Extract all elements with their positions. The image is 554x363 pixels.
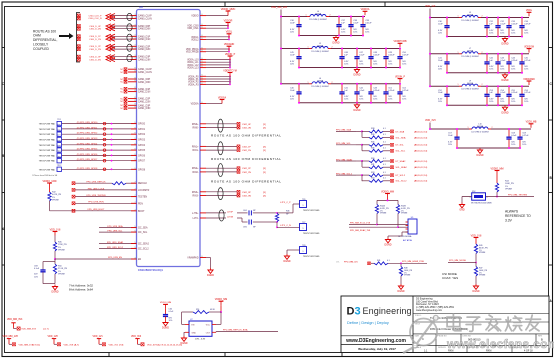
resistor R44 bbox=[495, 175, 514, 193]
resistor R45 bbox=[53, 236, 67, 252]
wire U7 VCC bbox=[216, 323, 221, 325]
differential pair CSI2_1P/CSI2_1N from U8 bbox=[192, 142, 266, 155]
svg-text:6: 6 bbox=[202, 80, 203, 82]
svg-text:7: 7 bbox=[135, 209, 136, 211]
svg-text:U8: U8 bbox=[139, 5, 143, 9]
svg-text:DT_SCL: DT_SCL bbox=[396, 145, 405, 147]
svg-text:3: 3 bbox=[135, 17, 136, 19]
svg-text:CAM0_D2N: CAM0_D2N bbox=[138, 48, 151, 51]
title block grid bbox=[341, 296, 549, 353]
svg-text:GPIO0: GPIO0 bbox=[138, 124, 146, 126]
svg-text:(X) FPD_URS_GPIO4: (X) FPD_URS_GPIO4 bbox=[77, 143, 98, 145]
svg-text:3: 3 bbox=[135, 27, 136, 29]
svg-text:CAM0_D1N: CAM0_D1N bbox=[138, 38, 151, 41]
svg-text:[7,9]: [7,9] bbox=[119, 344, 124, 346]
capacitor C42 1uF bbox=[484, 53, 494, 74]
capacitor C45 10uF bbox=[290, 48, 302, 69]
svg-text:4: 4 bbox=[135, 257, 136, 259]
column A feed wire VDD_MM_1V8 bbox=[271, 6, 288, 84]
svg-text:[A,7,9,11,12,13,14,15,16]: [A,7,9,11,12,13,14,15,16] bbox=[158, 343, 183, 346]
U8 power pins VDDA_LJ0 group wire bbox=[187, 58, 231, 70]
note ROUTE AS 100 OHM DIFFERENTIAL LOOSELY COUPLED with bracket bbox=[33, 13, 80, 63]
svg-text:VDDA_LJ2: VDDA_LJ2 bbox=[187, 64, 199, 67]
svg-text:10%: 10% bbox=[359, 63, 363, 65]
svg-text:10%: 10% bbox=[524, 32, 528, 34]
svg-text:10%: 10% bbox=[290, 63, 294, 65]
ground DGND left-bottom bbox=[51, 285, 58, 294]
column B2 feed label VDD_3V3 bbox=[425, 119, 436, 129]
differential pair LJT0 from U8 bbox=[192, 210, 234, 221]
differential pair CSI0 row 4 (CSI0_D_2P/CSI0_D_2N) into U8 bbox=[77, 44, 150, 51]
svg-text:CAM1_D1N: CAM1_D1N bbox=[138, 91, 151, 94]
svg-text:120 OHM @ 100MHZ: 120 OHM @ 100MHZ bbox=[311, 86, 329, 88]
svg-text:2: 2 bbox=[330, 15, 331, 17]
svg-text:www.D3Engineering.com: www.D3Engineering.com bbox=[345, 338, 406, 344]
svg-text:10%: 10% bbox=[511, 32, 515, 34]
control row FPD_URS_PDN to U8 pin PDN bbox=[72, 202, 143, 206]
svg-text:0.1uF: 0.1uF bbox=[500, 92, 506, 94]
B4 power rail bbox=[429, 128, 531, 130]
svg-text:10%: 10% bbox=[438, 69, 442, 71]
svg-text:VDD_1V8: VDD_1V8 bbox=[64, 344, 75, 346]
svg-text:[X]: [X] bbox=[263, 172, 266, 174]
svg-text:9: 9 bbox=[135, 154, 136, 156]
svg-text:0.01uF: 0.01uF bbox=[365, 23, 372, 25]
svg-text:6: 6 bbox=[202, 75, 203, 77]
svg-text:BOOT: BOOT bbox=[138, 211, 145, 213]
svg-text:RIN0-: RIN0- bbox=[193, 128, 199, 130]
svg-text:REFERENCE TO: REFERENCE TO bbox=[505, 214, 531, 218]
svg-text:10%: 10% bbox=[169, 320, 173, 322]
svg-text:3: 3 bbox=[135, 14, 136, 16]
svg-text:CAM0_D3P: CAM0_D3P bbox=[138, 56, 151, 59]
svg-text:0.1: 0.1 bbox=[383, 148, 386, 150]
inductor L4 ferrite bead bbox=[306, 11, 331, 21]
svg-text:PDN: PDN bbox=[138, 203, 143, 205]
svg-text:7: 7 bbox=[135, 202, 136, 204]
svg-text:[X]: [X] bbox=[263, 192, 266, 194]
svg-text:VP08M: VP08M bbox=[380, 213, 387, 215]
svg-text:8: 8 bbox=[135, 70, 136, 72]
svg-text:TEST-POINT PAD: TEST-POINT PAD bbox=[39, 128, 56, 131]
svg-text:FPD_MM_I2S: FPD_MM_I2S bbox=[344, 261, 358, 263]
capacitor CH2 series bbox=[237, 218, 262, 229]
svg-text:6: 6 bbox=[202, 35, 203, 37]
I2C translate row R35 to DT_SCL bbox=[336, 142, 428, 151]
capacitor C43 0.1uF bbox=[495, 53, 506, 74]
svg-text:10%: 10% bbox=[489, 32, 493, 34]
power flag VDDOR bbox=[224, 19, 233, 26]
svg-text:5: 5 bbox=[135, 226, 136, 228]
B4 bottom rail bbox=[457, 147, 520, 149]
svg-text:I2C_SCL: I2C_SCL bbox=[138, 232, 148, 234]
svg-text:(X) FPD_URS_GPIO1: (X) FPD_URS_GPIO1 bbox=[77, 127, 98, 129]
power flag VDD_MM_1V8 tap bbox=[3, 336, 41, 346]
power flag VDDL bbox=[526, 10, 533, 16]
svg-text:Engineering: Engineering bbox=[363, 306, 412, 316]
svg-text:VDD_PRQB: VDD_PRQB bbox=[186, 52, 199, 54]
svg-text:3.3V: 3.3V bbox=[505, 219, 513, 223]
svg-text:VDDIO: VDDIO bbox=[191, 16, 198, 18]
column B feed wire VDD_1V1 bbox=[425, 5, 436, 86]
svg-text:8-bit Address: 0x64: 8-bit Address: 0x64 bbox=[69, 288, 93, 292]
svg-text:6: 6 bbox=[202, 50, 203, 52]
svg-text:CSI0_D_2N: CSI0_D_2N bbox=[89, 49, 101, 51]
A3 bottom rail bbox=[299, 102, 400, 104]
svg-text:9: 9 bbox=[135, 149, 136, 151]
svg-text:1%: 1% bbox=[505, 186, 508, 188]
svg-text:2: 2 bbox=[492, 127, 493, 129]
capacitor C31 1uF bbox=[484, 17, 494, 38]
svg-text:0.1uF: 0.1uF bbox=[511, 135, 517, 137]
svg-text:DGND: DGND bbox=[283, 260, 290, 263]
svg-text:FPD_URS_EN: FPD_URS_EN bbox=[108, 257, 122, 259]
svg-text:6: 6 bbox=[202, 66, 203, 68]
I2C translate row R30 to DT_SDA2 bbox=[336, 158, 428, 167]
svg-text:10%: 10% bbox=[438, 32, 442, 34]
svg-text:5: 5 bbox=[135, 242, 136, 244]
svg-text:2: 2 bbox=[482, 84, 483, 86]
svg-text:CSI0_D_3P: CSI0_D_3P bbox=[89, 57, 101, 59]
svg-text:www.d3engineering.com: www.d3engineering.com bbox=[416, 309, 442, 312]
differential pair CSI0 row 2 (CSI0_D_0P/CSI0_D_0N) into U8 bbox=[77, 24, 150, 31]
svg-text:3: 3 bbox=[135, 38, 136, 40]
power flag VDD_1V8 left-bottom bbox=[50, 228, 61, 235]
svg-text:0.25uF: 0.25uF bbox=[373, 55, 380, 57]
svg-text:CAM1_D2N: CAM1_D2N bbox=[138, 100, 151, 103]
note ROUTE AS 100 OHM DIFFERENTIAL 1 bbox=[211, 134, 282, 138]
capacitor C39 0.01uF bbox=[360, 16, 372, 37]
differential pair CSI0 row 5 (CSI0_D_3P/CSI0_D_3N) into U8 bbox=[77, 55, 150, 62]
svg-text:(X) FPD_URS_GPIO6: (X) FPD_URS_GPIO6 bbox=[77, 154, 98, 156]
ground GND testen bbox=[459, 203, 465, 212]
svg-text:EN: EN bbox=[138, 259, 142, 261]
svg-text:VDDIO_MM: VDDIO_MM bbox=[160, 302, 171, 304]
power flag VDDIO_MM decouple bbox=[160, 302, 171, 308]
svg-text:DGND: DGND bbox=[476, 154, 483, 157]
ground DGND B4 bbox=[476, 148, 483, 157]
svg-text:(X) FPD_URS_GPIO3: (X) FPD_URS_GPIO3 bbox=[77, 138, 98, 140]
I2C translate row R38 to DT_SDA bbox=[336, 128, 428, 137]
svg-text:VDDIO_MMC: VDDIO_MMC bbox=[221, 8, 236, 11]
svg-text:GPIO3: GPIO3 bbox=[138, 140, 146, 142]
capacitor C46 1uF bbox=[339, 48, 349, 69]
svg-text:VRAMPAD: VRAMPAD bbox=[187, 257, 199, 260]
svg-text:0.1: 0.1 bbox=[383, 128, 386, 130]
svg-text:TP4: TP4 bbox=[57, 119, 60, 121]
svg-text:VP08M: VP08M bbox=[479, 252, 486, 254]
wire to gnd testen bbox=[461, 197, 463, 203]
capacitor C53 1uF bbox=[484, 85, 494, 106]
power flag VDDAMD bbox=[224, 43, 235, 50]
svg-text:3: 3 bbox=[135, 45, 136, 47]
svg-text:VDDRTCYM: VDDRTCYM bbox=[223, 69, 237, 72]
svg-text:120 OHM @ 100MHZ: 120 OHM @ 100MHZ bbox=[461, 56, 479, 58]
capacitor C33 0.25uF bbox=[506, 17, 518, 38]
capacitor C48 0.25uF bbox=[368, 48, 380, 69]
svg-text:FPD_URS_SDA: FPD_URS_SDA bbox=[107, 225, 123, 228]
svg-text:I2C_SCL2: I2C_SCL2 bbox=[138, 248, 149, 250]
power flag VDDIN_P bbox=[395, 76, 405, 82]
svg-text:10%: 10% bbox=[365, 31, 369, 33]
svg-text:COUPLED: COUPLED bbox=[33, 47, 50, 51]
svg-text:GPIO8: GPIO8 bbox=[138, 169, 146, 171]
B3 power rail bbox=[429, 85, 529, 87]
capacitor C38 0.1uF bbox=[348, 16, 359, 37]
svg-text:0.27uF: 0.27uF bbox=[402, 90, 409, 92]
svg-text:VDD_CSI0: VDD_CSI0 bbox=[187, 26, 199, 28]
svg-text:560MA: 560MA bbox=[467, 13, 474, 16]
svg-text:[7,9,11]: [7,9,11] bbox=[33, 344, 41, 346]
svg-text:10%: 10% bbox=[524, 101, 528, 103]
svg-text:DGND: DGND bbox=[472, 290, 479, 293]
svg-text:10uF: 10uF bbox=[290, 90, 295, 92]
I2C translate row R31 to SCL_SDA2 bbox=[362, 164, 428, 169]
svg-text:CTL: CTL bbox=[336, 261, 340, 263]
wire U7 GND bbox=[184, 332, 185, 336]
capacitor CH1 series bbox=[237, 210, 262, 215]
svg-text:VDDA_P1: VDDA_P1 bbox=[188, 78, 199, 81]
svg-text:120 OHM @ 100MHZ: 120 OHM @ 100MHZ bbox=[461, 89, 479, 91]
capacitor C32 0.1uF bbox=[495, 17, 506, 38]
test point TP6 wire to U8 pin GPIO2 bbox=[39, 130, 146, 137]
resistor R49 upper bbox=[474, 242, 488, 255]
svg-text:VDDIN_P: VDDIN_P bbox=[225, 53, 236, 56]
svg-text:10%: 10% bbox=[522, 144, 526, 146]
svg-text:NP-TBD/3K3/1206 50MW: NP-TBD/3K3/1206 50MW bbox=[471, 203, 492, 205]
ground DGND below VRAMPAD bbox=[207, 268, 214, 277]
svg-text:FPD_MM_TESTEN: FPD_MM_TESTEN bbox=[508, 194, 528, 196]
no-connect pair CAM1 row 5 (CAM1_D3P/CAM1_D3N) bbox=[120, 104, 150, 110]
power flag VDDIOA bbox=[361, 8, 370, 15]
svg-text:9: 9 bbox=[135, 122, 136, 124]
svg-text:LJT0+: LJT0+ bbox=[192, 213, 199, 215]
svg-text:10uF: 10uF bbox=[438, 24, 443, 26]
svg-text:R39: R39 bbox=[371, 134, 374, 136]
I2C translate row R34 to SCL_SCL2 bbox=[362, 178, 428, 183]
svg-text:VDDAMD: VDDAMD bbox=[224, 43, 235, 46]
inductor L7 ferrite bead bbox=[458, 48, 483, 58]
differential pair CSI2_2P/CSI2_2N from U8 bbox=[192, 164, 266, 177]
capacitor C40 10uF bbox=[290, 83, 302, 104]
capacitor C30 10uF bbox=[438, 17, 450, 38]
svg-text:10%: 10% bbox=[344, 99, 348, 101]
svg-text:VP08M: VP08M bbox=[479, 275, 486, 277]
svg-text:10uF: 10uF bbox=[438, 92, 443, 94]
svg-text:(X) FPD_URS_GPIO7: (X) FPD_URS_GPIO7 bbox=[77, 159, 98, 161]
svg-text:TP9: TP9 bbox=[57, 146, 60, 148]
svg-text:(A8,10,12,14): (A8,10,12,14) bbox=[414, 160, 428, 163]
svg-text:SCL_SCL: SCL_SCL bbox=[396, 151, 407, 153]
svg-text:0.1uF: 0.1uF bbox=[500, 24, 506, 26]
svg-text:GND: GND bbox=[192, 332, 197, 334]
svg-text:R41: R41 bbox=[377, 260, 380, 262]
svg-text:1.8V - 3.3V: 1.8V - 3.3V bbox=[195, 339, 206, 341]
svg-text:10%: 10% bbox=[500, 32, 504, 34]
svg-text:120 OHM @ 100MHZ: 120 OHM @ 100MHZ bbox=[309, 19, 327, 21]
U8 power pins VDDIO group wire bbox=[191, 14, 228, 18]
svg-text:TP12: TP12 bbox=[57, 165, 62, 167]
power flag VDDIN_P bbox=[225, 53, 236, 60]
svg-text:560MA: 560MA bbox=[467, 82, 474, 85]
svg-text:FPD_URS_SDA2: FPD_URS_SDA2 bbox=[107, 241, 124, 244]
A1 bottom rail bbox=[299, 35, 363, 37]
svg-text:TP8: TP8 bbox=[302, 245, 305, 247]
svg-text:49.9K: 49.9K bbox=[210, 309, 216, 311]
U8 power pins VDDSA group wire bbox=[191, 102, 222, 106]
ground DGND A3 bbox=[353, 103, 360, 112]
power flag VDD3OM bbox=[524, 46, 534, 52]
svg-text:GPIO2: GPIO2 bbox=[138, 134, 146, 136]
svg-text:6: 6 bbox=[202, 83, 203, 85]
svg-text:1: 1 bbox=[308, 47, 309, 49]
svg-text:VDDSA: VDDSA bbox=[191, 103, 199, 106]
svg-text:560MA: 560MA bbox=[317, 80, 324, 83]
svg-text:CAM0_D1P: CAM0_D1P bbox=[138, 35, 151, 38]
svg-text:560MA: 560MA bbox=[477, 125, 484, 128]
capacitor C42 0.1uF bbox=[354, 83, 365, 104]
resistor R42 pullup bbox=[48, 187, 75, 211]
svg-text:DGND: DGND bbox=[332, 42, 339, 45]
ground DGND B3 bbox=[501, 105, 508, 114]
svg-text:VDDL2: VDDL2 bbox=[191, 40, 199, 42]
capacitor C41 1uF bbox=[339, 83, 349, 104]
svg-text:VDDSA: VDDSA bbox=[218, 96, 227, 99]
svg-text:3: 3 bbox=[135, 48, 136, 50]
svg-text:VDD_CSI1: VDD_CSI1 bbox=[187, 28, 199, 30]
svg-text:RIN3-: RIN3- bbox=[193, 196, 199, 198]
svg-text:VDD3_MB: VDD3_MB bbox=[526, 122, 537, 124]
svg-text:R33: R33 bbox=[371, 172, 374, 174]
A1 power rail bbox=[280, 16, 365, 18]
svg-text:DIFFERENTIAL,: DIFFERENTIAL, bbox=[33, 38, 57, 42]
svg-text:8: 8 bbox=[135, 90, 136, 92]
svg-text:VDDL: VDDL bbox=[226, 31, 233, 34]
svg-text:R30: R30 bbox=[371, 158, 374, 160]
svg-text:0.1uF: 0.1uF bbox=[359, 55, 365, 57]
svg-text:TP7: TP7 bbox=[302, 222, 305, 224]
svg-text:10%: 10% bbox=[388, 63, 392, 65]
A2 bottom rail bbox=[299, 67, 400, 69]
svg-text:10%: 10% bbox=[489, 101, 493, 103]
capacitor C83 bbox=[34, 259, 55, 284]
svg-text:2: 2 bbox=[332, 47, 333, 49]
svg-text:CAM0_D0P: CAM0_D0P bbox=[138, 25, 151, 28]
svg-text:9: 9 bbox=[135, 133, 136, 135]
svg-text:0.27uF: 0.27uF bbox=[402, 55, 409, 57]
B1 power rail bbox=[429, 17, 529, 19]
title www.D3Engineering.com bbox=[345, 338, 406, 344]
power flag VDDIO_URD bbox=[42, 180, 56, 187]
svg-text:ALT ATSH: ALT ATSH bbox=[403, 239, 413, 242]
svg-text:DGND: DGND bbox=[353, 109, 360, 112]
svg-text:Define | Design | Deploy: Define | Design | Deploy bbox=[347, 320, 389, 325]
svg-text:VDD3OM: VDD3OM bbox=[524, 46, 534, 48]
svg-text:10uF: 10uF bbox=[290, 23, 295, 25]
control row FPD_URS_LOCK to U8 pin LOCKMTR bbox=[72, 188, 150, 192]
svg-text:GPIO1: GPIO1 bbox=[138, 129, 146, 131]
svg-text:8: 8 bbox=[135, 68, 136, 70]
svg-text:CAM1_D1P: CAM1_D1P bbox=[138, 88, 151, 91]
note EVB items text bbox=[32, 174, 58, 177]
ground DGND B1 bbox=[501, 37, 508, 46]
svg-text:TEST-POINT PAD: TEST-POINT PAD bbox=[39, 144, 56, 147]
U8 power pins VDD_PRQA group wire bbox=[186, 47, 230, 53]
svg-text:10%: 10% bbox=[489, 69, 493, 71]
svg-text:8: 8 bbox=[135, 107, 136, 109]
svg-text:[X]: [X] bbox=[263, 150, 266, 152]
svg-text:10%: 10% bbox=[373, 63, 377, 65]
power flag VDDIO_MM testen bbox=[491, 167, 504, 174]
capacitor C41 10uF bbox=[438, 53, 450, 74]
svg-text:VDDIOA: VDDIOA bbox=[361, 8, 370, 11]
I2C row FPD_URS_SDA2 to U8 pin I2C_SDA2 bbox=[99, 241, 150, 246]
svg-text:6: 6 bbox=[202, 38, 203, 40]
svg-text:TEST-POINT PAD: TEST-POINT PAD bbox=[39, 139, 56, 142]
svg-text:(X) FPD_URS_GPIO8: (X) FPD_URS_GPIO8 bbox=[77, 168, 98, 170]
svg-text:6: 6 bbox=[202, 77, 203, 79]
svg-text:I2C_SDA: I2C_SDA bbox=[138, 227, 148, 230]
svg-text:VDD_MM_1V8: VDD_MM_1V8 bbox=[3, 336, 19, 338]
test point TP11 wire to U8 pin GPIO7 bbox=[39, 156, 146, 163]
svg-text:VDDL1: VDDL1 bbox=[191, 37, 199, 39]
no-connect pair CAM1 row 3 (CAM1_D1P/CAM1_D1N) bbox=[120, 87, 150, 93]
svg-text:FPD_MM_HDMI_PDB: FPD_MM_HDMI_PDB bbox=[402, 261, 424, 263]
svg-text:LJTX_C_N: LJTX_C_N bbox=[280, 225, 291, 227]
svg-text:SIZE: SIZE bbox=[415, 335, 420, 337]
svg-text:FPD_MM_REFCLK_BGA: FPD_MM_REFCLK_BGA bbox=[223, 329, 248, 332]
capacitor C43 0.25uF bbox=[368, 83, 380, 104]
svg-text:GND: GND bbox=[459, 209, 465, 212]
svg-text:CSI2_0N: CSI2_0N bbox=[242, 128, 251, 130]
no-connect pair CAM1 row 4 (CAM1_D2P/CAM1_D2N) bbox=[120, 97, 150, 103]
svg-text:10%: 10% bbox=[511, 69, 515, 71]
svg-text:4.02K_PN: 4.02K_PN bbox=[52, 194, 62, 196]
svg-text:0.27uF: 0.27uF bbox=[524, 92, 531, 94]
svg-text:9: 9 bbox=[135, 138, 136, 140]
svg-text:D: D bbox=[347, 306, 355, 318]
resistor R51 enable bbox=[193, 309, 216, 314]
svg-text:VDDIO_MM: VDDIO_MM bbox=[491, 167, 504, 170]
svg-text:VDDIO_MM: VDDIO_MM bbox=[381, 190, 394, 193]
I2C row FPD_URS_SCL2 to U8 pin I2C_SCL2 bbox=[99, 247, 149, 251]
svg-text:178K_PN: 178K_PN bbox=[58, 244, 67, 246]
svg-text:1: 1 bbox=[470, 197, 471, 199]
svg-text:10%: 10% bbox=[448, 144, 452, 146]
svg-text:FPD_URS_REFCLK: FPD_URS_REFCLK bbox=[86, 182, 106, 184]
svg-text:6: 6 bbox=[202, 14, 203, 16]
wire FPD_MM_MODE bbox=[448, 254, 477, 264]
svg-text:CSI0_CLK_N: CSI0_CLK_N bbox=[88, 18, 102, 20]
note CSI MODE COAX YES bbox=[442, 272, 458, 280]
svg-text:CSI0_D_1N: CSI0_D_1N bbox=[89, 39, 101, 41]
I2C translate row R33 to DT_SCL2 bbox=[336, 172, 428, 181]
ground DGND R48 bbox=[397, 284, 404, 293]
svg-text:FPD_URS_SCL2: FPD_URS_SCL2 bbox=[107, 247, 124, 249]
svg-text:TP7: TP7 bbox=[57, 135, 60, 137]
svg-text:VDDA_P0: VDDA_P0 bbox=[188, 75, 199, 78]
svg-text:0.1: 0.1 bbox=[383, 158, 386, 160]
B1 bottom rail bbox=[447, 36, 522, 38]
svg-text:0.1uF: 0.1uF bbox=[500, 60, 506, 62]
capacitor C60 decouple bbox=[163, 308, 174, 321]
svg-text:VP08M: VP08M bbox=[58, 274, 65, 276]
svg-text:TODO:: TODO: bbox=[415, 315, 422, 317]
wire I2C2_SDA 1.8V bbox=[349, 214, 408, 232]
capacitor C50 0.27uF bbox=[397, 48, 409, 69]
svg-text:TEST-POINT PAD: TEST-POINT PAD bbox=[39, 160, 56, 163]
svg-text:VP08M: VP08M bbox=[52, 200, 59, 202]
